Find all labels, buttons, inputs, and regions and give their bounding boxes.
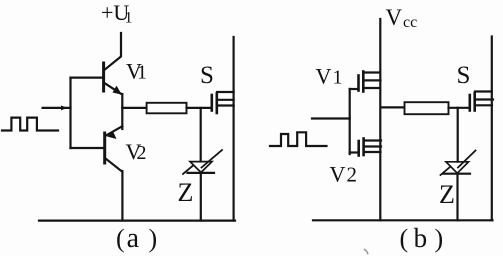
svg-text:(: (: [116, 224, 125, 253]
bottom rail (a): [39, 220, 235, 222]
wire zener to rail (a): [200, 173, 202, 221]
wire junction down to zener (a): [200, 108, 202, 162]
wire output to resistor: [122, 107, 147, 109]
wire left input rail: [69, 78, 71, 148]
svg-text:a: a: [127, 223, 140, 254]
svg-text:): ): [435, 224, 444, 253]
wire S drain/source vertical (b): [491, 37, 493, 221]
label Vcc supply: [386, 5, 418, 31]
MOSFET S (b): [470, 92, 493, 111]
svg-text:2: 2: [137, 142, 147, 164]
svg-text:V: V: [330, 162, 346, 187]
bottom rail (b): [313, 219, 493, 221]
svg-text:Z: Z: [178, 178, 194, 207]
MOSFET S (a): [212, 92, 234, 113]
wire V1 gate lead (b): [350, 88, 358, 90]
wire V1 base lead: [71, 76, 103, 78]
MOSFET V2 (b): [359, 139, 381, 156]
svg-text:): ): [149, 224, 158, 253]
svg-text:V: V: [316, 64, 332, 89]
wire input with arrow: [43, 106, 71, 111]
wire V2 gate lead (b): [350, 151, 358, 153]
wire S drain/source vertical (a): [233, 37, 235, 221]
label (a): [116, 223, 157, 254]
svg-text:V: V: [386, 5, 403, 30]
wire junction down to zener (b): [457, 108, 459, 162]
wire resistor to gate S (b): [449, 107, 469, 109]
wire zener to rail (b): [456, 174, 458, 221]
svg-text:2: 2: [347, 163, 358, 187]
svg-text:1: 1: [333, 67, 343, 89]
wire gate rail (b): [349, 89, 351, 154]
zener diode Z (a): [183, 150, 222, 174]
wire output to resistor (b): [381, 106, 405, 108]
svg-text:b: b: [414, 223, 428, 253]
wire V2 collector to rail: [121, 171, 123, 221]
svg-text:cc: cc: [403, 14, 417, 31]
svg-text:S: S: [457, 62, 471, 89]
svg-text:Z: Z: [439, 180, 455, 209]
MOSFET V1 (b): [359, 72, 381, 92]
node output (a) emitter junction: [121, 94, 123, 129]
square wave input (a): [2, 118, 58, 131]
transistor V2: [105, 126, 123, 171]
svg-text:1: 1: [137, 62, 147, 84]
stray scan speck: [365, 250, 368, 254]
wire Vcc rail vertical (b): [379, 19, 381, 220]
svg-text:1: 1: [125, 10, 133, 27]
wire input (b): [312, 117, 350, 119]
svg-text:(: (: [400, 224, 409, 253]
resistor R gate (a): [147, 103, 187, 114]
label (b): [400, 223, 444, 253]
label +U1 supply: [101, 0, 133, 27]
zener diode Z (b): [441, 151, 476, 176]
resistor R gate (b): [405, 102, 449, 114]
wire resistor to gate S: [187, 107, 211, 109]
wire V2 base lead: [71, 147, 104, 149]
square wave input (b): [270, 132, 327, 146]
transistor V1: [104, 63, 122, 95]
wire supply to V1 collector: [104, 33, 121, 70]
svg-text:S: S: [200, 62, 214, 89]
